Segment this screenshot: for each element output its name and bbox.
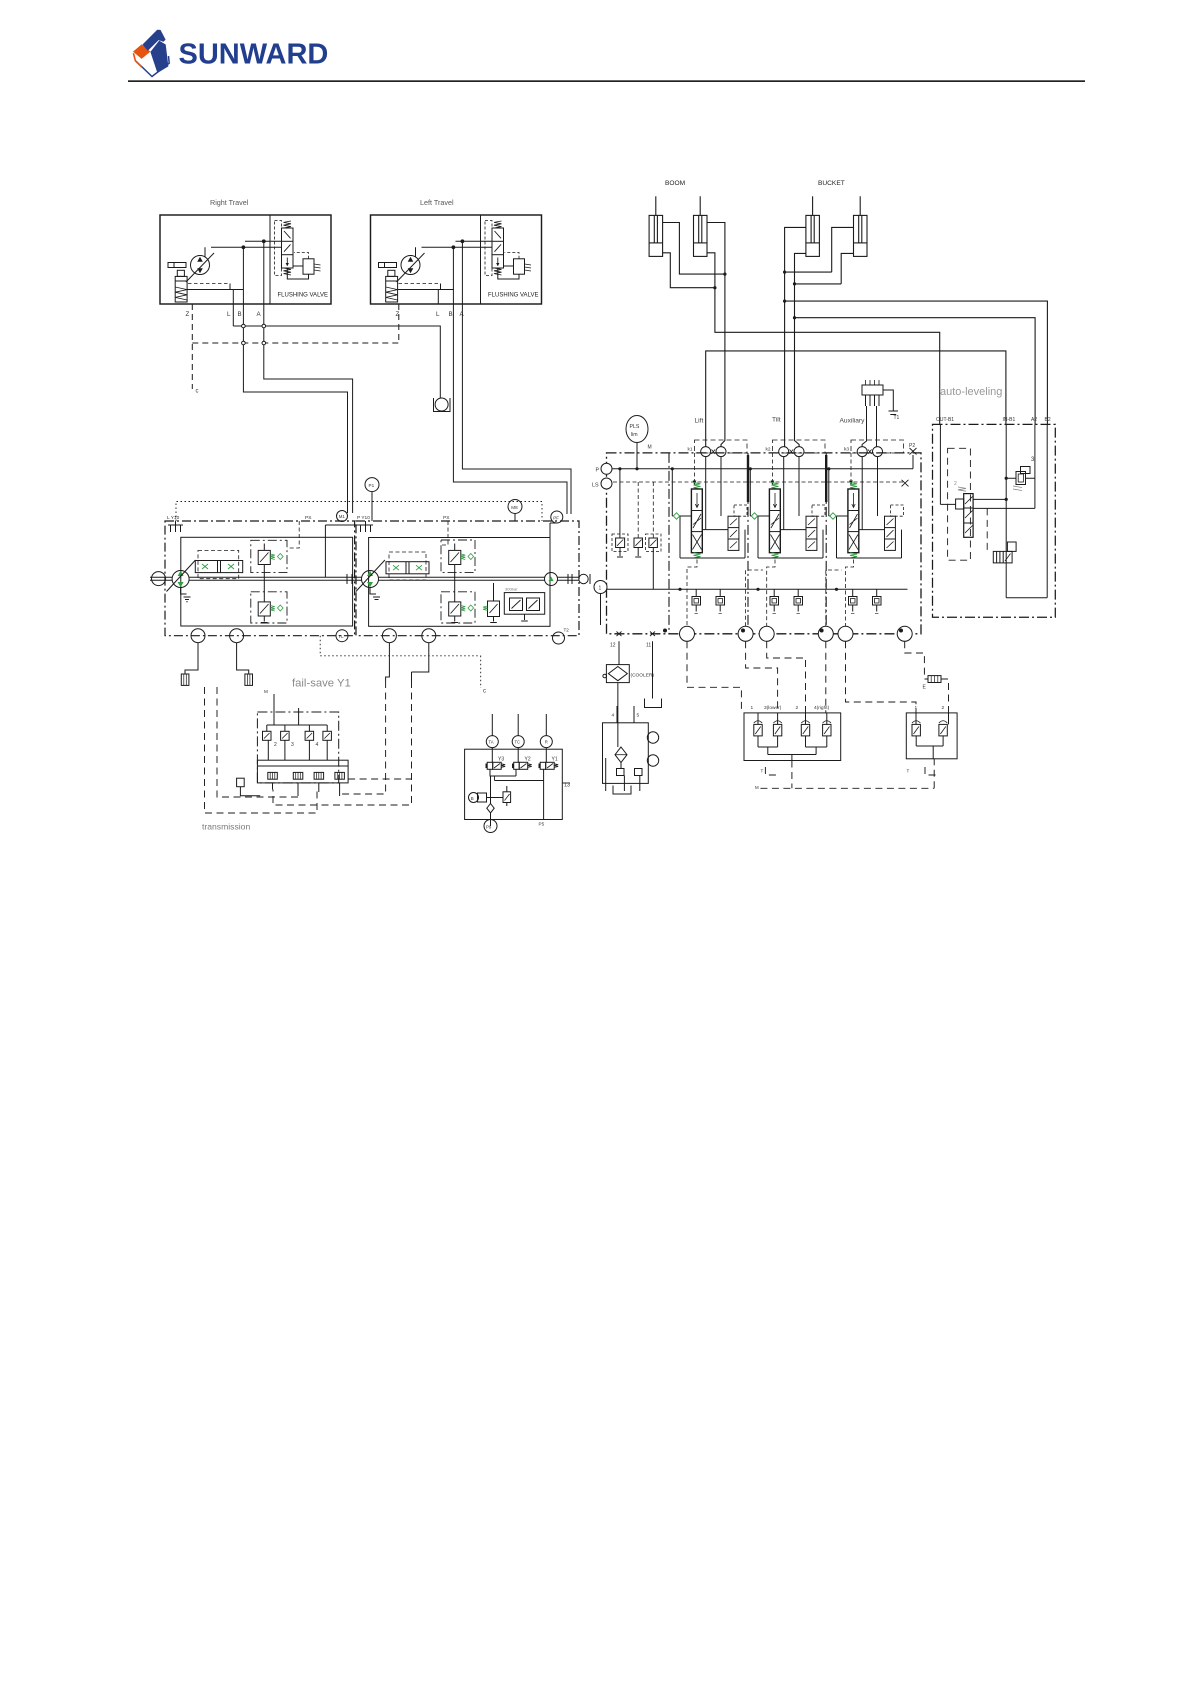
svg-text:M1: M1 — [339, 514, 346, 519]
svg-text:4: 4 — [612, 713, 615, 719]
svg-text:2: 2 — [796, 705, 799, 711]
Y manifold piping — [490, 769, 544, 826]
pump2 bottom ports — [382, 629, 396, 643]
svg-text:P Y10: P Y10 — [357, 515, 370, 521]
wire: right B to pump — [243, 247, 347, 513]
inlet relief valves — [619, 469, 621, 538]
junction dots — [713, 271, 796, 320]
svg-text:c: c — [483, 689, 486, 695]
svg-text:M: M — [648, 445, 652, 451]
pressure switch — [469, 793, 479, 803]
wire: bucket cyl4 rod side — [785, 227, 854, 272]
svg-text:PS: PS — [443, 515, 449, 521]
tilt section — [749, 440, 825, 614]
svg-text:Left Travel: Left Travel — [420, 198, 454, 207]
svg-text:M: M — [755, 785, 759, 790]
svg-text:5: 5 — [637, 713, 640, 719]
pump2 aux valve — [488, 601, 500, 617]
svg-text:P9: P9 — [486, 824, 492, 829]
ports 12 / 11 — [617, 632, 656, 637]
regulator link — [261, 544, 268, 623]
drive shaft — [150, 577, 579, 580]
svg-text:B2: B2 — [1045, 417, 1051, 423]
svg-text:OUT-B1: OUT-B1 — [936, 417, 954, 423]
lower diamond outline — [136, 56, 169, 77]
PUMPS — [150, 478, 590, 644]
port M8 — [508, 500, 522, 514]
svg-text:Y3: Y3 — [498, 757, 504, 763]
svg-text:lim: lim — [631, 432, 638, 438]
valve block dash-dot border — [607, 453, 922, 634]
internal dashed frame — [948, 448, 971, 560]
svg-text:R: R — [545, 740, 548, 745]
svg-text:T1: T1 — [894, 415, 900, 421]
pump2 — [362, 571, 379, 588]
lift section — [671, 440, 747, 614]
svg-text:transmission: transmission — [202, 822, 250, 832]
right travel port labels — [186, 311, 465, 318]
auxiliary section — [827, 440, 903, 614]
svg-text:auto-leveling: auto-leveling — [940, 386, 1002, 398]
pump pilot dotted — [320, 636, 481, 688]
wire: bucket B2 tap to auto-level — [785, 301, 1048, 424]
svg-text:300bar: 300bar — [505, 587, 518, 592]
svg-text:T: T — [761, 769, 764, 774]
svg-text:PS: PS — [305, 515, 311, 521]
Y solenoid manifold — [465, 749, 563, 819]
gauge under left travel — [435, 398, 448, 411]
svg-text:c: c — [196, 389, 199, 395]
TRAVEL — [160, 198, 571, 514]
port comb P — [358, 525, 373, 532]
svg-text:B: B — [471, 796, 474, 801]
blue top band — [142, 30, 165, 51]
pilot dashed — [986, 508, 988, 551]
svg-text:2: 2 — [942, 705, 945, 711]
wire: left Z pilot — [398, 304, 400, 343]
wire: bucket cyl3 rod side down to tilt B2 — [785, 227, 806, 446]
svg-text:LS: LS — [592, 483, 599, 489]
svg-text:2: 2 — [954, 481, 957, 487]
pump2 LS control block — [504, 593, 544, 615]
pilot valve block 1 — [744, 713, 841, 761]
svg-text:1: 1 — [751, 705, 754, 711]
svg-text:3: 3 — [291, 742, 294, 748]
check valve — [1006, 477, 1035, 479]
transmission manifold — [268, 740, 327, 760]
svg-text:(COOLER): (COOLER) — [631, 673, 655, 679]
svg-text:4: 4 — [316, 742, 319, 748]
svg-text:M: M — [264, 689, 268, 694]
svg-text:M8: M8 — [511, 505, 518, 510]
svg-text:Y2: Y2 — [525, 757, 531, 763]
T line dots — [678, 588, 838, 591]
svg-text:P5: P5 — [539, 822, 545, 827]
check diamond — [487, 804, 494, 813]
pump1 regulator A — [251, 540, 287, 572]
pump1 bottom ports — [191, 629, 205, 643]
pump2 inner housing — [369, 538, 550, 627]
pump2 drain stubs — [386, 643, 429, 681]
blue middle band — [150, 41, 168, 73]
svg-text:BOOM: BOOM — [665, 180, 685, 187]
Left Travel motor unit — [371, 215, 542, 304]
pilot relief — [503, 792, 511, 803]
svg-text:TA: TA — [489, 740, 494, 745]
svg-text:L: L — [436, 311, 440, 318]
aux T1 port — [883, 390, 898, 415]
port P1 — [365, 478, 379, 492]
boom cylinder 1 — [649, 215, 663, 256]
port comb L — [168, 521, 183, 532]
PLS limiter — [626, 416, 648, 443]
wire: boom cyl2 rod side down to lift A1 — [707, 223, 725, 447]
leveling spool — [964, 494, 973, 538]
pump1 regulator B — [251, 592, 287, 623]
P supply line — [607, 455, 914, 469]
pump1 servo — [198, 550, 239, 578]
svg-text:P2: P2 — [909, 443, 915, 449]
sunward logo icon — [133, 30, 169, 77]
pump1 — [172, 571, 189, 588]
svg-text:1: 1 — [599, 586, 602, 592]
wire: boom cyl2 head side to OUT-B1 — [707, 253, 940, 425]
cooler line — [618, 641, 620, 664]
leveling solenoid valve — [993, 551, 1012, 563]
solenoid valve Y2 — [512, 757, 532, 770]
svg-text:TC: TC — [515, 740, 521, 745]
MAINVALVE — [592, 380, 921, 649]
port LS — [601, 478, 612, 489]
svg-text:Right Travel: Right Travel — [210, 198, 249, 207]
connector boxes — [181, 674, 189, 685]
port M1 — [337, 511, 348, 522]
svg-text:Auxiliary: Auxiliary — [840, 418, 866, 425]
svg-text:TL: TL — [339, 634, 345, 639]
svg-text:k2: k2 — [766, 447, 771, 453]
wire: right A to pump — [264, 241, 353, 513]
gear pump 2 — [579, 574, 588, 583]
tank return — [652, 641, 654, 698]
svg-text:Y1: Y1 — [552, 757, 558, 763]
bottom pilot ports — [680, 626, 913, 641]
pump1 dash-dot enclosure — [165, 521, 355, 636]
svg-text:T: T — [907, 769, 910, 774]
pilot valve block 2 — [906, 713, 957, 759]
pump1 case drain — [181, 588, 191, 602]
port P9 — [484, 820, 497, 833]
bucket cylinder 3 — [806, 215, 820, 256]
filter block — [603, 723, 649, 784]
svg-text:fail-save Y1: fail-save Y1 — [292, 678, 351, 690]
AUTOLEVEL — [933, 386, 1056, 617]
B2 line — [1006, 424, 1047, 597]
svg-text:Lift: Lift — [695, 418, 704, 425]
svg-text:L Y10: L Y10 — [167, 515, 180, 521]
section dividers — [669, 453, 826, 634]
pump2 regulator A — [441, 540, 475, 573]
crossing hops — [242, 324, 266, 345]
pump1 delivery line — [325, 521, 365, 577]
svg-text:T2: T2 — [564, 628, 570, 633]
filter element — [615, 747, 627, 763]
wire: left A to pump2 — [462, 241, 571, 514]
svg-text:P1: P1 — [369, 483, 375, 488]
solenoid valve Y3 — [486, 757, 506, 770]
gear pump 1 — [545, 573, 558, 586]
svg-text:FLUSHING VALVE: FLUSHING VALVE — [488, 293, 538, 299]
svg-text:3(lower): 3(lower) — [764, 705, 782, 711]
port PF — [551, 511, 563, 523]
pump2 delivery line — [550, 523, 557, 577]
svg-text:2: 2 — [274, 742, 277, 748]
orange diamond — [133, 44, 150, 59]
port P — [601, 463, 612, 474]
pump2 dash-dot enclosure — [356, 521, 579, 636]
wire: left B to pump2 — [438, 247, 567, 514]
dotted pump boundary — [176, 502, 542, 522]
svg-text:Z: Z — [186, 311, 190, 318]
main valve pilot drops — [687, 641, 949, 788]
HEADER — [128, 30, 1085, 82]
svg-text:1: 1 — [915, 705, 918, 711]
wire: Z crossover dashed — [192, 342, 398, 344]
IN-B1 line — [1005, 424, 1007, 597]
auto-level dash-dot border — [933, 424, 1056, 617]
transmission dash-dot border — [257, 712, 338, 783]
svg-text:L: L — [227, 311, 231, 318]
svg-text:SUNWARD: SUNWARD — [179, 39, 329, 71]
pump1 inner housing — [181, 537, 353, 626]
OUT-B1 line — [940, 424, 955, 504]
svg-text:BUCKET: BUCKET — [818, 180, 845, 187]
svg-text:PF: PF — [553, 515, 559, 520]
svg-text:12: 12 — [610, 643, 616, 649]
svg-text:4(right): 4(right) — [814, 705, 830, 711]
svg-text:PLS: PLS — [630, 424, 640, 430]
wire: right L to left motor — [233, 290, 440, 399]
svg-text:11: 11 — [646, 643, 651, 649]
wire: bucket cyl3 head side down to tilt A2 — [795, 253, 806, 446]
cooler — [606, 665, 629, 683]
transmission valves — [263, 731, 332, 740]
header rule — [128, 80, 1085, 82]
svg-text:FLUSHING VALVE: FLUSHING VALVE — [278, 293, 328, 299]
svg-text:k3: k3 — [844, 447, 849, 453]
pump1 PS pilot — [287, 521, 299, 548]
aux coupler comb — [862, 385, 883, 395]
pump2 servo — [389, 552, 426, 580]
A2 line — [1034, 424, 1036, 508]
bucket cylinder 4 — [854, 215, 868, 256]
wire: right Z pilot line — [191, 304, 193, 389]
orifice — [928, 676, 941, 683]
svg-text:IN-B1: IN-B1 — [1003, 417, 1016, 423]
CYLINDERS — [649, 180, 1047, 447]
boom cylinder 2 — [694, 215, 708, 256]
svg-text:B: B — [238, 311, 242, 318]
wire: bucket A2 tap to auto-level — [795, 318, 1036, 425]
shaft input circle — [152, 572, 166, 586]
tank line — [607, 588, 908, 590]
wire: boom cyl1 head side — [663, 253, 715, 288]
svg-text:B: B — [449, 311, 453, 318]
pump2 PS pilot — [441, 521, 448, 545]
port labels — [936, 417, 1051, 423]
svg-text:Tilt: Tilt — [772, 417, 781, 424]
pilot dashed net — [205, 681, 412, 813]
svg-text:A2: A2 — [1031, 417, 1037, 423]
pump2 regulator B — [441, 592, 475, 623]
orange lower edge — [133, 53, 141, 67]
svg-text:P: P — [596, 468, 600, 474]
solenoid valve Y1 — [539, 757, 559, 770]
BOTTOM — [181, 636, 957, 833]
svg-text:k1: k1 — [688, 447, 693, 453]
wire: bucket cyl4 head side — [795, 253, 854, 284]
wire: boom cyl1 rod side — [663, 223, 725, 275]
wire: lift B1 riser to IN-B1 — [706, 351, 1006, 447]
junction dots — [1005, 477, 1008, 501]
Right Travel motor unit — [160, 215, 331, 304]
LS line — [607, 481, 906, 483]
